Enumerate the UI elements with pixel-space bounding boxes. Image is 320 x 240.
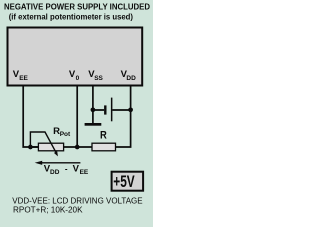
svg-text:RPOT+R; 10K-20K: RPOT+R; 10K-20K [13,206,83,215]
wire VEE vertical + elbow [23,87,38,148]
junction dot VDD/battery [128,107,133,112]
wire V0 vertical [76,87,78,148]
svg-text:+5V: +5V [113,172,135,191]
svg-text:DD: DD [50,169,60,176]
svg-text:-: - [65,164,68,173]
pin label VEE [13,69,29,82]
wiper wire up and over [30,132,56,152]
battery branch wires [93,109,131,111]
svg-text:NEGATIVE POWER SUPPLY INCLUDED: NEGATIVE POWER SUPPLY INCLUDED [4,2,150,11]
svg-text:EE: EE [19,75,28,82]
+5V box [112,172,144,191]
label VDD - VEE [44,164,89,177]
svg-text:Pot: Pot [60,131,71,138]
battery short plate [104,105,106,114]
svg-text:EE: EE [80,169,89,176]
pin label V0 [69,69,80,82]
measure arrow line [41,162,80,164]
svg-text:DD: DD [126,75,136,82]
svg-text:0: 0 [76,75,80,82]
potentiometer RPot body [38,143,63,151]
resistor R body [92,143,116,151]
battery long plate [111,98,113,122]
label RPot [53,126,71,138]
svg-text:R: R [100,130,107,142]
wire main horizontal pot-to-R [30,146,92,148]
svg-text:SS: SS [94,75,103,82]
pin label VSS [88,69,103,82]
wiper arrowhead [54,151,58,156]
ground bar [85,123,102,126]
svg-text:V: V [73,164,80,175]
LCD module box [8,28,143,86]
measure arrowhead [35,161,43,165]
svg-text:VDD-VEE: LCD DRIVING VOLTAGE: VDD-VEE: LCD DRIVING VOLTAGE [12,196,142,205]
pin label VDD [121,69,136,82]
junction dot VEE/wiper [28,145,33,150]
wire VSS vertical [92,87,94,124]
wire VDD vertical + elbow to R [116,87,131,148]
svg-text:(if external potentiometer is: (if external potentiometer is used) [9,13,134,22]
junction dot VSS/battery [91,107,96,112]
junction dot V0/main line [75,145,80,150]
